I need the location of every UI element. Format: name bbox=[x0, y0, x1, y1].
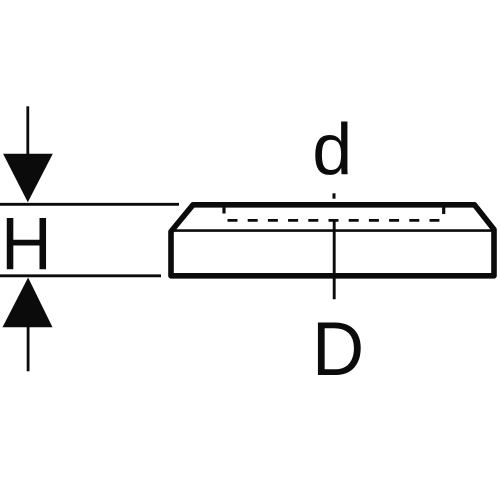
label D bbox=[312, 306, 364, 393]
centerline tick above disc bbox=[333, 193, 336, 198]
bore edge tick left bbox=[222, 207, 225, 214]
arrow down (H upper) bbox=[3, 106, 53, 202]
label d bbox=[312, 109, 352, 191]
vertical centerline bbox=[333, 219, 336, 299]
dimension line H bottom bbox=[0, 274, 161, 277]
disc body outline bbox=[171, 205, 494, 276]
dimension line H top bbox=[0, 203, 179, 206]
disc inner edge line bbox=[172, 229, 492, 232]
hidden bore dashed line bbox=[228, 219, 440, 222]
arrow up (H lower) bbox=[3, 278, 53, 372]
label H bbox=[1, 201, 52, 286]
bore edge tick right bbox=[442, 207, 445, 215]
